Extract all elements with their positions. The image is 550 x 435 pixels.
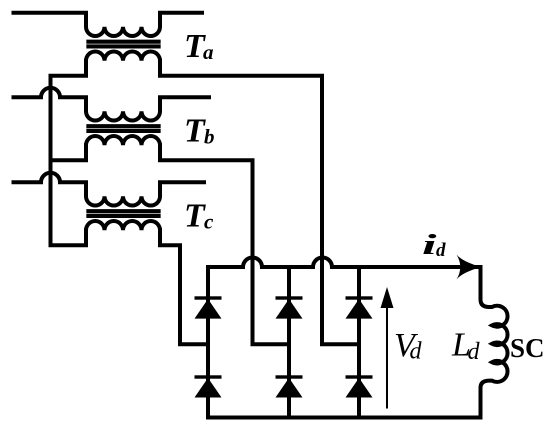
- svg-text:i: i: [422, 229, 437, 261]
- svg-text:b: b: [204, 124, 215, 148]
- svg-text:T: T: [184, 197, 206, 234]
- svg-text:c: c: [204, 209, 214, 233]
- svg-text:d: d: [436, 240, 446, 261]
- svg-text:d: d: [410, 339, 423, 365]
- svg-text:d: d: [468, 339, 481, 365]
- svg-text:a: a: [203, 40, 214, 64]
- svg-text:T: T: [184, 112, 206, 149]
- svg-text:SC: SC: [510, 333, 545, 363]
